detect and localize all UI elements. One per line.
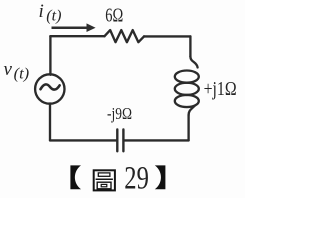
caption bracket left — [70, 165, 81, 189]
svg-text:+j1Ω: +j1Ω — [204, 79, 237, 100]
inductor L exit hook — [189, 106, 195, 115]
caption bracket right — [155, 165, 166, 189]
capacitor C -j9ohm plate left — [116, 130, 118, 152]
wire top-right segment — [144, 35, 190, 37]
resistor R 6ohm — [105, 30, 145, 42]
capacitor C -j9ohm plate right — [122, 130, 124, 152]
inductor L loop 2 — [175, 83, 199, 95]
wire bottom-right segment — [125, 139, 189, 141]
caption kanji bottom box inner — [101, 184, 107, 186]
current arrow i(t) head — [87, 23, 96, 32]
svg-text:6Ω: 6Ω — [105, 4, 123, 26]
svg-text:i: i — [39, 1, 44, 22]
inductor L entry hook — [190, 57, 197, 68]
svg-text:(t): (t) — [14, 66, 30, 83]
svg-text:v: v — [4, 59, 13, 80]
inductor L loop 1 — [175, 71, 199, 83]
caption kanji tu (figure) outer box — [94, 170, 115, 190]
caption kanji bottom box outer — [97, 182, 111, 189]
wire top-left segment — [50, 35, 104, 37]
inductor L loop 3 — [175, 95, 199, 107]
svg-text:29: 29 — [124, 161, 149, 197]
wire left rail lower — [49, 103, 51, 140]
current arrow i(t) shaft — [52, 26, 89, 29]
caption kanji top small box — [98, 173, 110, 176]
wire right rail upper — [189, 36, 191, 56]
wire bottom-left segment — [50, 139, 116, 141]
source V1 sine — [41, 84, 60, 89]
source V1 circle — [35, 74, 64, 103]
svg-text:-j9Ω: -j9Ω — [107, 104, 132, 123]
wire right rail lower — [187, 115, 189, 140]
caption kanji middle bar — [96, 178, 113, 180]
wire left rail upper — [49, 36, 51, 75]
svg-text:(t): (t) — [46, 8, 61, 25]
